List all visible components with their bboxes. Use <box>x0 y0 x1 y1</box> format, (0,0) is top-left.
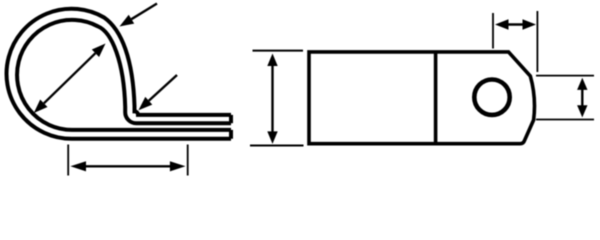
P-clamp profile view: inner surface line (loop + lower strap via outside elbow) <box>17 20 231 130</box>
bottom dimension right extension tick <box>187 145 189 176</box>
bottom dimension left extension tick <box>67 145 69 176</box>
top dimension left extension line (hole center) <box>492 13 494 49</box>
top dimension right extension line (tab edge) <box>536 11 538 72</box>
right vertical double-headed dimension arrow (hole diameter) <box>577 78 587 118</box>
middle vertical double-headed dimension arrow (clamp height) <box>267 54 277 144</box>
strap end cap lower <box>229 130 233 139</box>
right dimension top extension line <box>536 75 594 77</box>
side view body outline with chamfered / rounded mounting tab <box>309 52 534 144</box>
P-clamp profile view: outer surface line (loop + upper strap via inside elbow) <box>7 9 231 139</box>
pointer arrow to inner elbow radius <box>139 75 178 110</box>
right dimension bottom extension line <box>536 119 594 121</box>
top double-headed dimension arrow (edge distance) <box>495 19 536 29</box>
side view divider line (fold edge) <box>434 52 438 144</box>
middle vertical dimension top cap <box>253 50 304 52</box>
strap end cap upper <box>229 115 233 123</box>
diagonal double-headed arrow: loop inner diameter <box>34 44 106 114</box>
middle vertical dimension bottom cap <box>250 145 304 147</box>
bottom double-headed dimension arrow (flat length) <box>70 161 185 171</box>
mounting hole <box>474 80 509 115</box>
pointer arrow to outer bend radius (top right of loop) <box>120 4 158 27</box>
